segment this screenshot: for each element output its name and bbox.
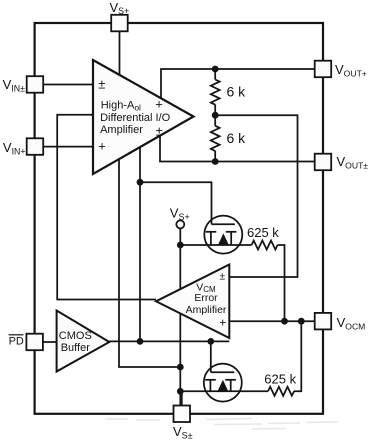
wire VOUT+ rail (161, 69, 315, 99)
pin VS+ (top) (111, 15, 128, 32)
node 625k upper at VOCM (281, 318, 288, 325)
wire T1 gate drive (140, 182, 212, 224)
svg-text:625 k: 625 k (247, 225, 279, 240)
wire 6k top stub (214, 69, 216, 80)
node buffer output enable (137, 338, 144, 345)
node VS- routing (177, 364, 184, 371)
node 6k mid junction (212, 112, 219, 119)
node T1 gate tap (137, 179, 144, 186)
wire T1 source rail (180, 244, 251, 246)
wire common-mode sense tap to VCM amp upper input (215, 115, 297, 277)
svg-text:625 k: 625 k (264, 372, 296, 387)
node VS+ to T1 source (177, 242, 184, 249)
svg-text:Error: Error (194, 292, 218, 304)
op-amp U1 High-Aol Differential I/O Amplifier triangle (93, 60, 194, 174)
wire VIN+ input (43, 146, 93, 148)
wire 625k upper to VOCM node (278, 245, 285, 321)
svg-text:+: + (219, 315, 226, 329)
resistor 6k lower (211, 126, 220, 151)
pin VOUT+ (315, 61, 332, 77)
svg-text:Amplifier: Amplifier (100, 124, 143, 136)
resistor 625k lower (268, 387, 294, 396)
pin VS- (bottom) (174, 406, 191, 423)
wire buffer output to VCM amp enable (109, 340, 229, 342)
node VS- to T2 source (177, 388, 184, 395)
svg-text:Buffer: Buffer (61, 342, 90, 354)
svg-text:±: ± (219, 270, 225, 282)
faint watermark smudge (105, 419, 338, 430)
pin VOCM (315, 313, 332, 330)
svg-text:Amplifier: Amplifier (186, 304, 227, 316)
svg-text:PD: PD (9, 336, 24, 348)
wire VS- pin stub (181, 391, 183, 405)
pin VIN+ (27, 138, 44, 155)
terminal VS+ internal circle (176, 220, 184, 228)
buffer U3 CMOS Buffer triangle (57, 311, 110, 372)
wire 6k middle stub (214, 105, 216, 126)
node 625k lower at VOCM (298, 318, 305, 325)
svg-text:CMOS: CMOS (59, 330, 92, 342)
op-amp U2 VCM Error Amplifier triangle (156, 265, 229, 339)
svg-text:+: + (98, 139, 106, 154)
pin PD (26, 334, 43, 351)
resistor 6k upper (211, 80, 220, 105)
wire T2 source rail (180, 390, 268, 392)
package outline border (35, 23, 323, 414)
pin VOUT- (315, 154, 332, 171)
wire PD pin to buffer input (43, 341, 57, 343)
wire 625k lower to VOCM node (294, 321, 301, 391)
node 6k top junction (212, 66, 219, 73)
wire VS+ vertical to VCM amp top (passes behind VCM triangle) (179, 228, 181, 405)
wire VCM amp lower input to VOCM pin (229, 320, 314, 322)
transistor T1 (upper 625k switch) (204, 216, 242, 254)
resistor 625k upper (252, 241, 278, 250)
wire T2 gate drive (210, 341, 212, 372)
svg-text:6 k: 6 k (227, 84, 247, 100)
wire enable net vertical from main amp to buffer output (139, 148, 141, 342)
svg-text:Differential I/O: Differential I/O (100, 112, 171, 124)
svg-text:6 k: 6 k (227, 130, 247, 146)
wire 6k bottom stub (214, 151, 216, 162)
transistor T2 (lower 625k switch) (204, 364, 242, 402)
node 6k bottom junction (212, 158, 219, 165)
node T2 gate tap (207, 338, 214, 345)
pin VIN- (27, 76, 44, 93)
wire VIN- input (43, 84, 93, 86)
wire VCM control loop from VCM amp output to main amp mid input (57, 115, 156, 300)
svg-text:±: ± (156, 123, 163, 138)
wire VS+ pin to main amp top (119, 31, 121, 75)
svg-text:+: + (155, 96, 163, 111)
wire VOUT- rail (160, 136, 315, 162)
svg-text:±: ± (98, 76, 105, 91)
wire main amp VS- routing (119, 159, 180, 367)
